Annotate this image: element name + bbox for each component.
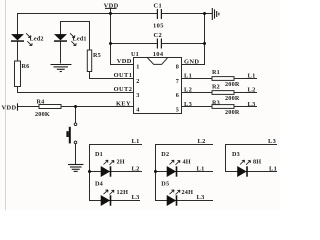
wire: Led1 anode loop to R5 top (61, 22, 90, 51)
wire: mid vertical VDD rail to pin1 (111, 14, 134, 65)
junction node VDD rail / mid vertical (109, 12, 112, 15)
svg-text:24H: 24H (182, 189, 194, 196)
resistor R1 (212, 77, 234, 81)
resistor R5 (87, 50, 91, 72)
svg-text:Led1: Led1 (73, 35, 87, 42)
svg-text:L1: L1 (248, 73, 256, 80)
junction node VDD rail / right vertical (203, 12, 206, 15)
svg-text:L3: L3 (248, 101, 256, 108)
svg-text:L1: L1 (184, 73, 192, 80)
svg-text:200R: 200R (225, 81, 240, 88)
wire: right vertical GND rail (182, 14, 205, 65)
svg-text:OUT2: OUT2 (114, 86, 133, 93)
svg-text:D4: D4 (95, 181, 103, 188)
svg-text:1: 1 (136, 64, 139, 71)
junction node box1 D1 row (88, 170, 91, 173)
svg-text:D3: D3 (232, 151, 240, 158)
wire: pin6 to R2 (182, 92, 213, 94)
svg-text:7: 7 (176, 78, 179, 85)
LED D3 (8H) (232, 151, 261, 177)
resistor R6 (15, 61, 21, 87)
svg-text:L3: L3 (184, 101, 192, 108)
wire: R1 to net L1 (234, 78, 257, 80)
svg-text:KEY: KEY (116, 100, 131, 107)
ground (under key switch) (68, 165, 83, 172)
wire: C2 row left segment (111, 43, 158, 45)
svg-text:L2: L2 (184, 87, 192, 94)
wire: Led1 cathode down to ground (60, 42, 62, 64)
svg-text:L1: L1 (132, 138, 140, 145)
svg-text:OUT1: OUT1 (114, 72, 133, 79)
sheet edge line (5, 0, 7, 210)
op-amp U1 chip body (134, 58, 182, 114)
svg-text:Led2: Led2 (30, 35, 44, 42)
svg-text:R2: R2 (212, 84, 220, 91)
svg-text:4H: 4H (183, 159, 191, 166)
svg-text:D5: D5 (161, 181, 169, 188)
svg-text:L2: L2 (248, 87, 256, 94)
svg-text:VDD: VDD (2, 105, 17, 112)
resistor R2 (212, 91, 234, 95)
pushbutton switch (KEY) (66, 123, 76, 144)
svg-text:4: 4 (136, 106, 139, 113)
svg-text:L3: L3 (268, 138, 276, 145)
svg-text:R6: R6 (22, 63, 30, 70)
svg-text:L1: L1 (269, 165, 277, 172)
wire: R5 bottom to OUT1 row (90, 72, 134, 79)
svg-text:200R: 200R (225, 109, 240, 116)
LED Led2 (11, 33, 44, 45)
svg-text:C1: C1 (154, 2, 163, 9)
wire: C2 row right segment (162, 43, 205, 45)
ground (top right, horizontal) (212, 8, 219, 20)
svg-text:8H: 8H (253, 158, 261, 165)
svg-text:200K: 200K (35, 111, 50, 118)
wire: VDD top rail left segment (18, 14, 158, 35)
LED D5 (24H) (161, 181, 193, 206)
wire: R4 to KEY pin4 (61, 106, 134, 108)
junction node C2 row / right vertical (203, 42, 206, 45)
box 1 wires: net L1 feed (90, 145, 143, 201)
svg-text:200R: 200R (225, 95, 240, 102)
svg-text:2H: 2H (117, 159, 125, 166)
svg-text:5: 5 (176, 106, 179, 113)
svg-text:2: 2 (136, 78, 139, 85)
wire: Led2 cathode to R6 (17, 42, 19, 61)
wire: pin5 to R3 (182, 106, 213, 108)
svg-text:GND: GND (184, 59, 199, 66)
resistor R4 (39, 105, 61, 109)
svg-text:R5: R5 (93, 52, 101, 59)
junction node KEY / switch (74, 105, 77, 108)
wire: switch to ground (75, 144, 77, 164)
svg-text:8: 8 (176, 64, 179, 71)
svg-text:6: 6 (176, 92, 179, 99)
LED D4 (12H) (95, 181, 128, 206)
U1 notch (148, 58, 168, 64)
wire: VDD symbol stem (110, 8, 112, 13)
ground (under Led1) (51, 65, 72, 72)
svg-text:R4: R4 (37, 98, 45, 105)
svg-text:L2: L2 (198, 138, 206, 145)
resistor R3 (212, 105, 234, 109)
svg-text:L1: L1 (197, 165, 205, 172)
svg-text:12H: 12H (117, 189, 129, 196)
wire: R2 to net L2 (234, 92, 257, 94)
wire: R6 bottom to OUT2 row corner (18, 87, 134, 93)
svg-text:U1: U1 (131, 51, 139, 58)
svg-text:R1: R1 (212, 69, 220, 76)
junction node C2 row / mid vertical (109, 42, 112, 45)
wire: R3 to net L3 (234, 106, 257, 108)
box 3 wires: net L3 feed (226, 145, 278, 172)
svg-text:C2: C2 (154, 32, 163, 39)
svg-text:L2: L2 (132, 165, 140, 172)
wire: stub to top-right ground (205, 13, 213, 15)
box 2 wires: net L2 feed (156, 145, 214, 201)
LED D1 (2H) (95, 151, 125, 177)
LED Led1 (54, 33, 87, 45)
svg-text:L3: L3 (132, 194, 140, 201)
capacitor C2 (157, 39, 161, 49)
wire: pin7 to R1 (182, 78, 213, 80)
svg-text:D1: D1 (95, 151, 103, 158)
svg-text:3: 3 (136, 92, 139, 99)
svg-text:105: 105 (153, 23, 164, 30)
svg-text:R3: R3 (212, 100, 220, 107)
wire: VDD port to R4 (18, 106, 39, 108)
svg-text:VDD: VDD (117, 58, 132, 65)
junction node box2 D2 row (154, 170, 157, 173)
svg-text:D2: D2 (161, 151, 169, 158)
LED D2 (4H) (161, 151, 191, 177)
wire: VDD top rail right segment (162, 13, 205, 15)
capacitor C1 (157, 9, 161, 19)
wire: KEY node down to switch (75, 107, 77, 123)
svg-text:L3: L3 (197, 194, 205, 201)
